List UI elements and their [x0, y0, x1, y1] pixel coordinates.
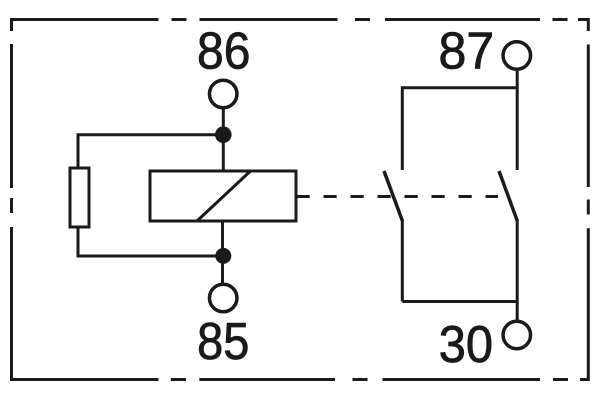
- svg-text:87: 87: [439, 21, 495, 79]
- svg-text:86: 86: [197, 22, 250, 80]
- svg-text:85: 85: [197, 312, 249, 370]
- svg-text:30: 30: [439, 315, 493, 373]
